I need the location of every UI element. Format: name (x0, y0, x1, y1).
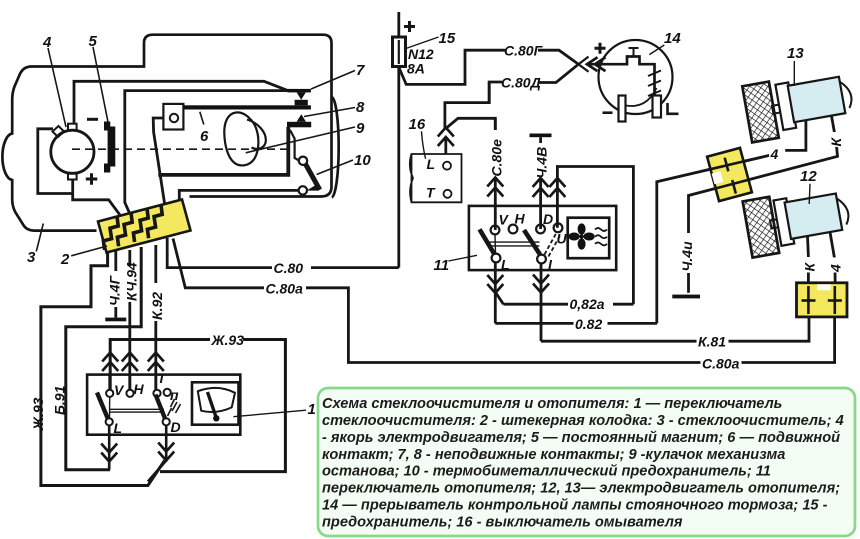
svg-text:Ч.4и: Ч.4и (679, 241, 695, 272)
minus label of motor (87, 118, 98, 121)
wire D of switch 1 to Ж.93 (148, 425, 166, 481)
wire third brush loop (38, 129, 73, 194)
svg-text:8A: 8A (407, 61, 425, 77)
plus mark at breaker 14 (595, 43, 606, 54)
wire Ч.4В into heater switch D (539, 137, 542, 229)
svg-text:14: 14 (664, 30, 681, 47)
wiper switch 1 box (87, 375, 240, 435)
connector 2 pin blades (103, 217, 118, 250)
wire С.80а from connector 2 (173, 239, 835, 363)
wire 0.82 (495, 322, 657, 325)
svg-text:Ж.93: Ж.93 (30, 397, 46, 431)
svg-text:Б.91: Б.91 (52, 385, 68, 415)
heat waves (595, 228, 607, 245)
heater motor 13 resistor (742, 80, 785, 142)
connector fork into breaker 14 (579, 57, 589, 72)
label Ч.4В (533, 143, 548, 179)
parking brake lamp breaker 14 (599, 40, 673, 114)
connector block of heater motor 12 (797, 283, 848, 317)
svg-text:11: 11 (434, 257, 450, 274)
wire К.81 (541, 317, 809, 341)
svg-text:4: 4 (42, 34, 52, 51)
svg-text:14 — прерыватель контрольной л: 14 — прерыватель контрольной лампы стоян… (322, 498, 828, 514)
wire supply feed into fuse (397, 12, 400, 38)
switch 1 terminal D (163, 418, 170, 425)
svg-text:Схема стеклоочистителя и отопи: Схема стеклоочистителя и отопителя: 1 — … (322, 396, 782, 412)
svg-text:9: 9 (356, 120, 365, 137)
plus label of motor (86, 173, 98, 184)
legend box (318, 388, 855, 536)
switch 1 lever 2 (156, 395, 166, 419)
label С.80 (272, 259, 311, 275)
breaker 10 terminal (299, 186, 307, 194)
wire С.80Д from washer branch (489, 82, 502, 103)
dashed armature centerline (72, 148, 293, 150)
wire 0,82а (503, 303, 633, 306)
wire I of switch 11 down to К.81 (540, 263, 543, 341)
svg-text:контакт; 7, 8 - неподвижные ко: контакт; 7, 8 - неподвижные контакты; 9 … (322, 447, 785, 463)
svg-text:16: 16 (409, 116, 426, 133)
wire heater motor 12 К (806, 236, 810, 257)
switch 1 terminal H (126, 390, 133, 397)
svg-text:С.80а: С.80а (266, 281, 304, 297)
wire L of switch 11 (494, 262, 497, 323)
wire fuse to node С.80 (vertical drop) (397, 67, 400, 268)
label К.92 (149, 283, 164, 321)
bus tap of Ч.4Г (105, 318, 126, 322)
svg-text:С.80Г: С.80Г (504, 43, 544, 59)
heater switch 11 box (469, 206, 616, 270)
wire heater motor 13 Ч to 0.82 riser (785, 121, 806, 151)
switch 11 slider rail (489, 242, 540, 246)
switch 11 terminal L (492, 254, 501, 263)
switch 1 terminal L (106, 418, 113, 425)
svg-text:К: К (828, 137, 844, 147)
svg-text:С.80е: С.80е (489, 139, 505, 177)
svg-text:15: 15 (439, 30, 456, 47)
svg-text:переключатель отопителя; 12, 1: переключатель отопителя; 12, 13— электро… (322, 481, 840, 497)
heater motor 12 (773, 188, 851, 246)
wire breaker 10 to connector 2 (179, 190, 298, 208)
switch 1 lever (97, 393, 108, 420)
wire С.80Д to breaker 14 (539, 64, 579, 82)
movable contact bar 6 (184, 105, 311, 109)
intermediate connector block of heater motors (707, 148, 752, 201)
svg-text:13: 13 (787, 45, 804, 62)
svg-text:L: L (427, 156, 436, 172)
connector plug on washer wire (438, 128, 454, 147)
svg-text:Т: Т (426, 185, 436, 201)
wiper motor armature 4 (51, 130, 94, 173)
fixed contact 7 (288, 89, 311, 93)
switch 1 slider rail (110, 409, 164, 412)
label Ч.4Г (107, 271, 122, 307)
svg-text:К: К (802, 262, 818, 272)
svg-text:Ч.4В: Ч.4В (534, 147, 550, 179)
wire heater motor 12 Ч (830, 232, 834, 257)
wire U of heater switch to 0,82а node (557, 167, 633, 305)
svg-text:С.80а: С.80а (702, 356, 740, 372)
switch 11 terminal H (509, 225, 518, 234)
svg-text:С.80Д: С.80Д (501, 75, 541, 91)
svg-text:3: 3 (27, 249, 36, 266)
wire К.92 from connector 2 to switch 1 (154, 245, 157, 390)
wire motor top brush to contact line (74, 81, 288, 124)
connector plugs on С.80е (487, 178, 503, 197)
switch 1 terminal п (164, 389, 171, 396)
switch 11 lever 2 (524, 230, 540, 255)
switch 1 terminal I (153, 390, 160, 397)
connector plugs below switch 11 I (533, 275, 549, 293)
wire С.80Г to breaker 14 (538, 50, 579, 64)
connector plugs below switch 1 D (158, 443, 174, 461)
connector plugs below switch 11 L (487, 275, 503, 293)
svg-text:10: 10 (354, 152, 371, 169)
wire into washer switch L (444, 137, 447, 161)
svg-text:12: 12 (800, 168, 817, 185)
wire contact 8 hook to breaker pivot (290, 130, 300, 161)
wire contact 8 to lower rail (158, 127, 288, 175)
connector plugs on U wire (549, 178, 565, 197)
label С.80а right (701, 355, 742, 370)
switch 11 lever 1 (480, 229, 495, 253)
label Ч on motor 13 wire (769, 146, 784, 160)
fixed contact 8 (287, 122, 311, 128)
svg-text:4: 4 (770, 146, 779, 162)
heater motor 12 resistor (743, 196, 784, 258)
connector plugs on Ч.4В (533, 178, 549, 197)
svg-text:4: 4 (828, 264, 844, 273)
washer switch 16 (410, 154, 462, 202)
wire КЧ.94 from connector 2 to switch 1 (128, 250, 131, 390)
permanent magnet 5 (104, 122, 115, 173)
label Ж.93 (210, 331, 243, 347)
wire motor bottom brush to connector 2 (73, 180, 121, 216)
thermobimetallic breaker 10 pivot (299, 157, 307, 165)
svg-text:останова; 10 - термобиметаллич: останова; 10 - термобиметаллический пред… (322, 464, 771, 480)
gauge icon in switch 1 (192, 382, 239, 424)
svg-text:0.82: 0.82 (575, 316, 602, 332)
wire Ч.4Г from connector 2 (114, 251, 117, 318)
svg-text:К.81: К.81 (698, 334, 726, 350)
fan blades (569, 223, 595, 249)
svg-text:Ж.93: Ж.93 (211, 332, 245, 348)
plus supply mark (404, 21, 415, 32)
svg-text:D: D (171, 419, 181, 435)
wire lower contact plate feed (125, 91, 288, 213)
svg-text:С.80: С.80 (274, 260, 304, 276)
label КЧ.94 (123, 266, 138, 302)
bus tap of Ч.4В (530, 134, 552, 138)
svg-text:стеклоочистителя: 2 - штекерна: стеклоочистителя: 2 - штекерная колодка:… (322, 413, 844, 429)
switch 1 terminal V (106, 390, 113, 397)
wires V H I inside switch 1 (108, 375, 111, 390)
svg-text:H: H (134, 381, 145, 397)
svg-text:D: D (543, 211, 553, 227)
wire С.80е into heater switch (494, 118, 497, 230)
wiper housing 3 outline (2, 35, 331, 231)
wire Ж.93 left loop from connector 2 (41, 252, 165, 486)
svg-text:L: L (114, 420, 123, 436)
wire Б.91 from connector 2 (66, 247, 141, 470)
movable contact 6 holder box (163, 104, 183, 130)
label С.80е (488, 130, 503, 177)
wire heater motor 13 К to ground (832, 116, 835, 133)
svg-text:8: 8 (356, 99, 365, 116)
switch 11 terminal I (537, 255, 546, 264)
svg-text:Ч.4Г: Ч.4Г (107, 274, 123, 306)
svg-text:L: L (501, 257, 510, 273)
node С.80 wire to fuse drop (167, 238, 399, 268)
svg-text:КЧ.94: КЧ.94 (124, 262, 140, 301)
fuse 15 N12 8A (393, 37, 406, 67)
label К on motor 13 wire (828, 132, 842, 147)
svg-text:1: 1 (308, 401, 316, 418)
label Ч.4и (679, 233, 694, 273)
svg-text:предохранитель; 16 - выключате: предохранитель; 16 - выключатель омывате… (322, 515, 683, 531)
ground of heater motors (672, 295, 700, 299)
wire С.80Д branch down to washer switch (445, 82, 489, 129)
svg-text:6: 6 (200, 128, 209, 145)
connector plugs above switch 1 (102, 353, 118, 372)
switch 11 terminal V (491, 226, 500, 235)
connector plugs below switch 1 L (101, 444, 117, 462)
wire L of switch 1 (108, 425, 111, 469)
cam 9 (224, 112, 258, 165)
svg-text:2: 2 (60, 251, 70, 268)
wire from contact 6 to connector 2 (153, 118, 166, 212)
fan icon box (568, 218, 610, 259)
svg-text:H: H (515, 211, 526, 227)
svg-text:7: 7 (356, 62, 365, 79)
switch 11 link I-U dashed (545, 234, 561, 257)
svg-text:К.92: К.92 (149, 292, 165, 320)
heater motor 13 (775, 72, 855, 130)
label С.80а (264, 280, 306, 295)
connector block 2 (98, 200, 191, 253)
svg-text:0,82а: 0,82а (570, 296, 605, 312)
wire branch to С.80е (446, 118, 496, 130)
wire fuse to С.80Г riser (399, 50, 506, 84)
breaker 10 contact wedge (307, 184, 319, 191)
breaker 10 lever (306, 164, 320, 190)
switch 11 terminal D (536, 225, 545, 234)
switch 11 terminal U (554, 223, 563, 232)
svg-text:- якорь электродвигателя; 5 —: - якорь электродвигателя; 5 — постоянный… (322, 430, 840, 446)
wire Ж.93 horizontal to switch 1 V (110, 340, 285, 472)
